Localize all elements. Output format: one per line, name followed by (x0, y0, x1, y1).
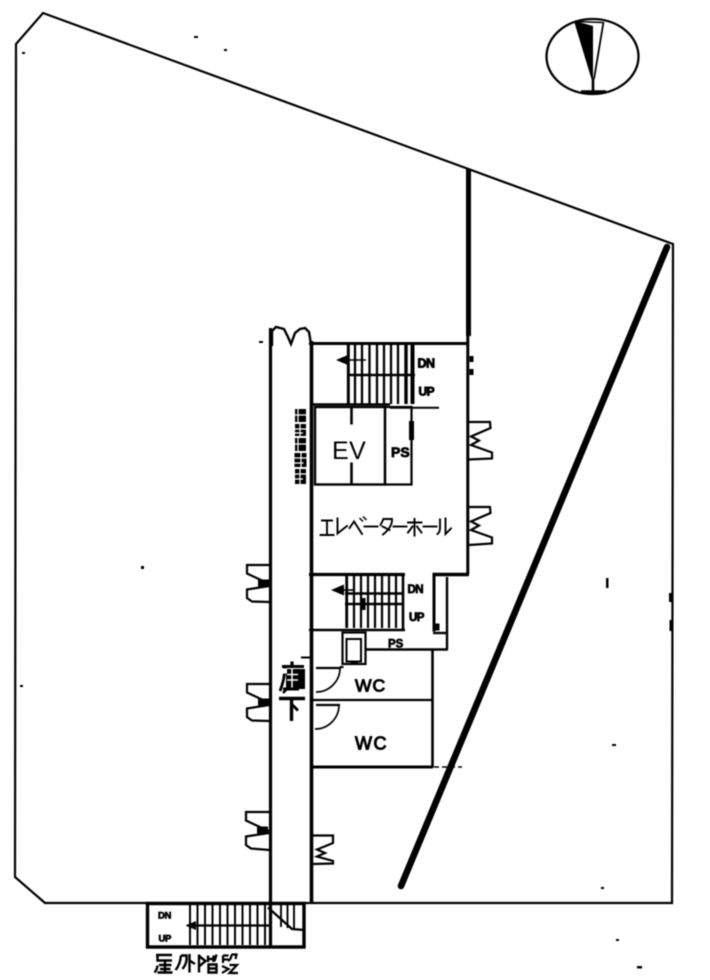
svg-text:UP: UP (419, 385, 435, 399)
svg-text:UP: UP (159, 934, 173, 945)
svg-text:DN: DN (418, 357, 436, 371)
svg-text:WC: WC (355, 734, 388, 754)
svg-text:EV: EV (332, 437, 366, 465)
svg-text:UP: UP (409, 612, 425, 624)
svg-text:WC: WC (355, 676, 386, 696)
svg-text:PS: PS (391, 444, 410, 460)
svg-text:DN: DN (158, 911, 172, 922)
svg-text:DN: DN (408, 584, 424, 596)
